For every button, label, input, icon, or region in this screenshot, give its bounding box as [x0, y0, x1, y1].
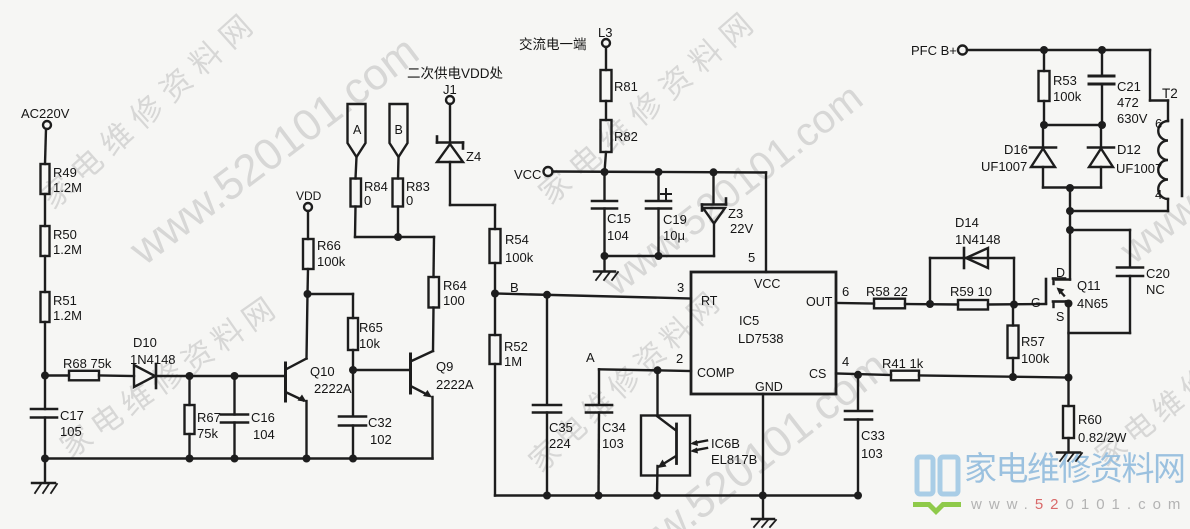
svg-text:R82: R82 — [614, 129, 638, 144]
svg-text:COMP: COMP — [697, 366, 735, 380]
svg-text:LD7538: LD7538 — [738, 331, 784, 346]
svg-text:472: 472 — [1117, 95, 1139, 110]
svg-text:C33: C33 — [861, 428, 885, 443]
svg-text:IC5: IC5 — [739, 313, 759, 328]
svg-text:104: 104 — [253, 427, 275, 442]
svg-text:D: D — [1056, 266, 1065, 280]
svg-text:B: B — [395, 123, 403, 137]
svg-text:3: 3 — [677, 280, 684, 295]
svg-text:Q9: Q9 — [436, 359, 453, 374]
svg-text:Z4: Z4 — [466, 149, 481, 164]
svg-text:103: 103 — [861, 446, 883, 461]
svg-text:A: A — [586, 350, 595, 365]
svg-text:4: 4 — [842, 354, 849, 369]
svg-text:GND: GND — [755, 380, 783, 394]
svg-text:R84: R84 — [364, 179, 388, 194]
svg-text:0.82/2W: 0.82/2W — [1078, 430, 1127, 445]
svg-text:104: 104 — [607, 228, 629, 243]
svg-text:0: 0 — [406, 193, 413, 208]
svg-text:C34: C34 — [602, 420, 626, 435]
svg-text:S: S — [1056, 310, 1064, 324]
svg-text:4N65: 4N65 — [1077, 296, 1108, 311]
svg-text:C17: C17 — [60, 408, 84, 423]
svg-text:100k: 100k — [505, 250, 534, 265]
svg-text:R50: R50 — [53, 227, 77, 242]
svg-text:102: 102 — [370, 432, 392, 447]
svg-text:R67: R67 — [197, 410, 221, 425]
svg-text:1N4148: 1N4148 — [955, 232, 1001, 247]
svg-text:R51: R51 — [53, 293, 77, 308]
svg-text:D10: D10 — [133, 335, 157, 350]
svg-text:R59 10: R59 10 — [950, 284, 992, 299]
svg-text:AC220V: AC220V — [21, 106, 70, 121]
svg-text:B: B — [510, 280, 519, 295]
svg-text:IC6B: IC6B — [711, 436, 740, 451]
svg-text:家电维修资料网: 家电维修资料网 — [964, 450, 1185, 487]
svg-text:75k: 75k — [197, 426, 218, 441]
svg-text:C35: C35 — [549, 420, 573, 435]
svg-text:Q11: Q11 — [1077, 278, 1101, 293]
svg-text:R66: R66 — [317, 238, 341, 253]
svg-text:R81: R81 — [614, 79, 638, 94]
svg-text:R65: R65 — [359, 320, 383, 335]
svg-text:1M: 1M — [504, 354, 522, 369]
svg-text:R54: R54 — [505, 232, 529, 247]
svg-text:EL817B: EL817B — [711, 452, 757, 467]
svg-text:UF1007: UF1007 — [981, 159, 1027, 174]
svg-text:R57: R57 — [1021, 334, 1045, 349]
svg-text:L3: L3 — [598, 25, 612, 40]
svg-text:D16: D16 — [1004, 142, 1028, 157]
svg-text:R41 1k: R41 1k — [882, 356, 924, 371]
svg-text:105: 105 — [60, 424, 82, 439]
svg-text:Z3: Z3 — [728, 206, 743, 221]
svg-text:R53: R53 — [1053, 73, 1077, 88]
svg-text:CS: CS — [809, 367, 826, 381]
svg-text:6: 6 — [842, 284, 849, 299]
svg-text:2222A: 2222A — [314, 381, 352, 396]
svg-text:1.2M: 1.2M — [53, 180, 82, 195]
svg-text:T2: T2 — [1162, 86, 1178, 101]
svg-text:NC: NC — [1146, 282, 1165, 297]
svg-text:100k: 100k — [1053, 89, 1082, 104]
svg-text:10k: 10k — [359, 336, 380, 351]
svg-text:C20: C20 — [1146, 266, 1170, 281]
svg-text:C32: C32 — [368, 415, 392, 430]
svg-text:2: 2 — [676, 351, 683, 366]
svg-text:4: 4 — [1155, 187, 1162, 202]
svg-text:OUT: OUT — [806, 295, 833, 309]
svg-text:R83: R83 — [406, 179, 430, 194]
svg-text:100k: 100k — [317, 254, 346, 269]
svg-text:10μ: 10μ — [663, 228, 685, 243]
svg-text:22V: 22V — [730, 221, 753, 236]
svg-text:二次供电VDD处: 二次供电VDD处 — [407, 66, 504, 81]
svg-text:PFC B+: PFC B+ — [911, 43, 957, 58]
svg-text:5: 5 — [748, 250, 755, 265]
svg-text:C21: C21 — [1117, 79, 1141, 94]
svg-text:R49: R49 — [53, 165, 77, 180]
svg-text:RT: RT — [701, 294, 718, 308]
svg-text:Q10: Q10 — [310, 364, 335, 379]
svg-text:1N4148: 1N4148 — [130, 352, 176, 367]
svg-text:D12: D12 — [1117, 142, 1141, 157]
svg-text:103: 103 — [602, 436, 624, 451]
svg-text:VCC: VCC — [754, 277, 780, 291]
svg-text:交流电一端: 交流电一端 — [519, 36, 587, 52]
svg-text:R52: R52 — [504, 339, 528, 354]
svg-text:VDD: VDD — [296, 189, 322, 203]
svg-text:R60: R60 — [1078, 412, 1102, 427]
svg-text:1.2M: 1.2M — [53, 242, 82, 257]
svg-text:G: G — [1031, 296, 1041, 310]
svg-text:100k: 100k — [1021, 351, 1050, 366]
svg-text:R68 75k: R68 75k — [63, 356, 112, 371]
svg-text:VCC: VCC — [514, 167, 541, 182]
svg-text:C15: C15 — [607, 211, 631, 226]
svg-text:C16: C16 — [251, 410, 275, 425]
svg-text:2222A: 2222A — [436, 377, 474, 392]
svg-text:0: 0 — [364, 193, 371, 208]
svg-text:630V: 630V — [1117, 111, 1148, 126]
svg-text:224: 224 — [549, 436, 571, 451]
svg-text:R58 22: R58 22 — [866, 284, 908, 299]
svg-text:A: A — [353, 123, 362, 137]
svg-text:1.2M: 1.2M — [53, 308, 82, 323]
svg-text:J1: J1 — [443, 82, 457, 97]
svg-text:C19: C19 — [663, 212, 687, 227]
svg-text:6: 6 — [1155, 116, 1162, 131]
svg-text:R64: R64 — [443, 278, 467, 293]
svg-text:UF1007: UF1007 — [1116, 161, 1162, 176]
svg-text:www.520101.com: www.520101.com — [970, 496, 1187, 513]
svg-text:100: 100 — [443, 293, 465, 308]
svg-text:D14: D14 — [955, 215, 979, 230]
